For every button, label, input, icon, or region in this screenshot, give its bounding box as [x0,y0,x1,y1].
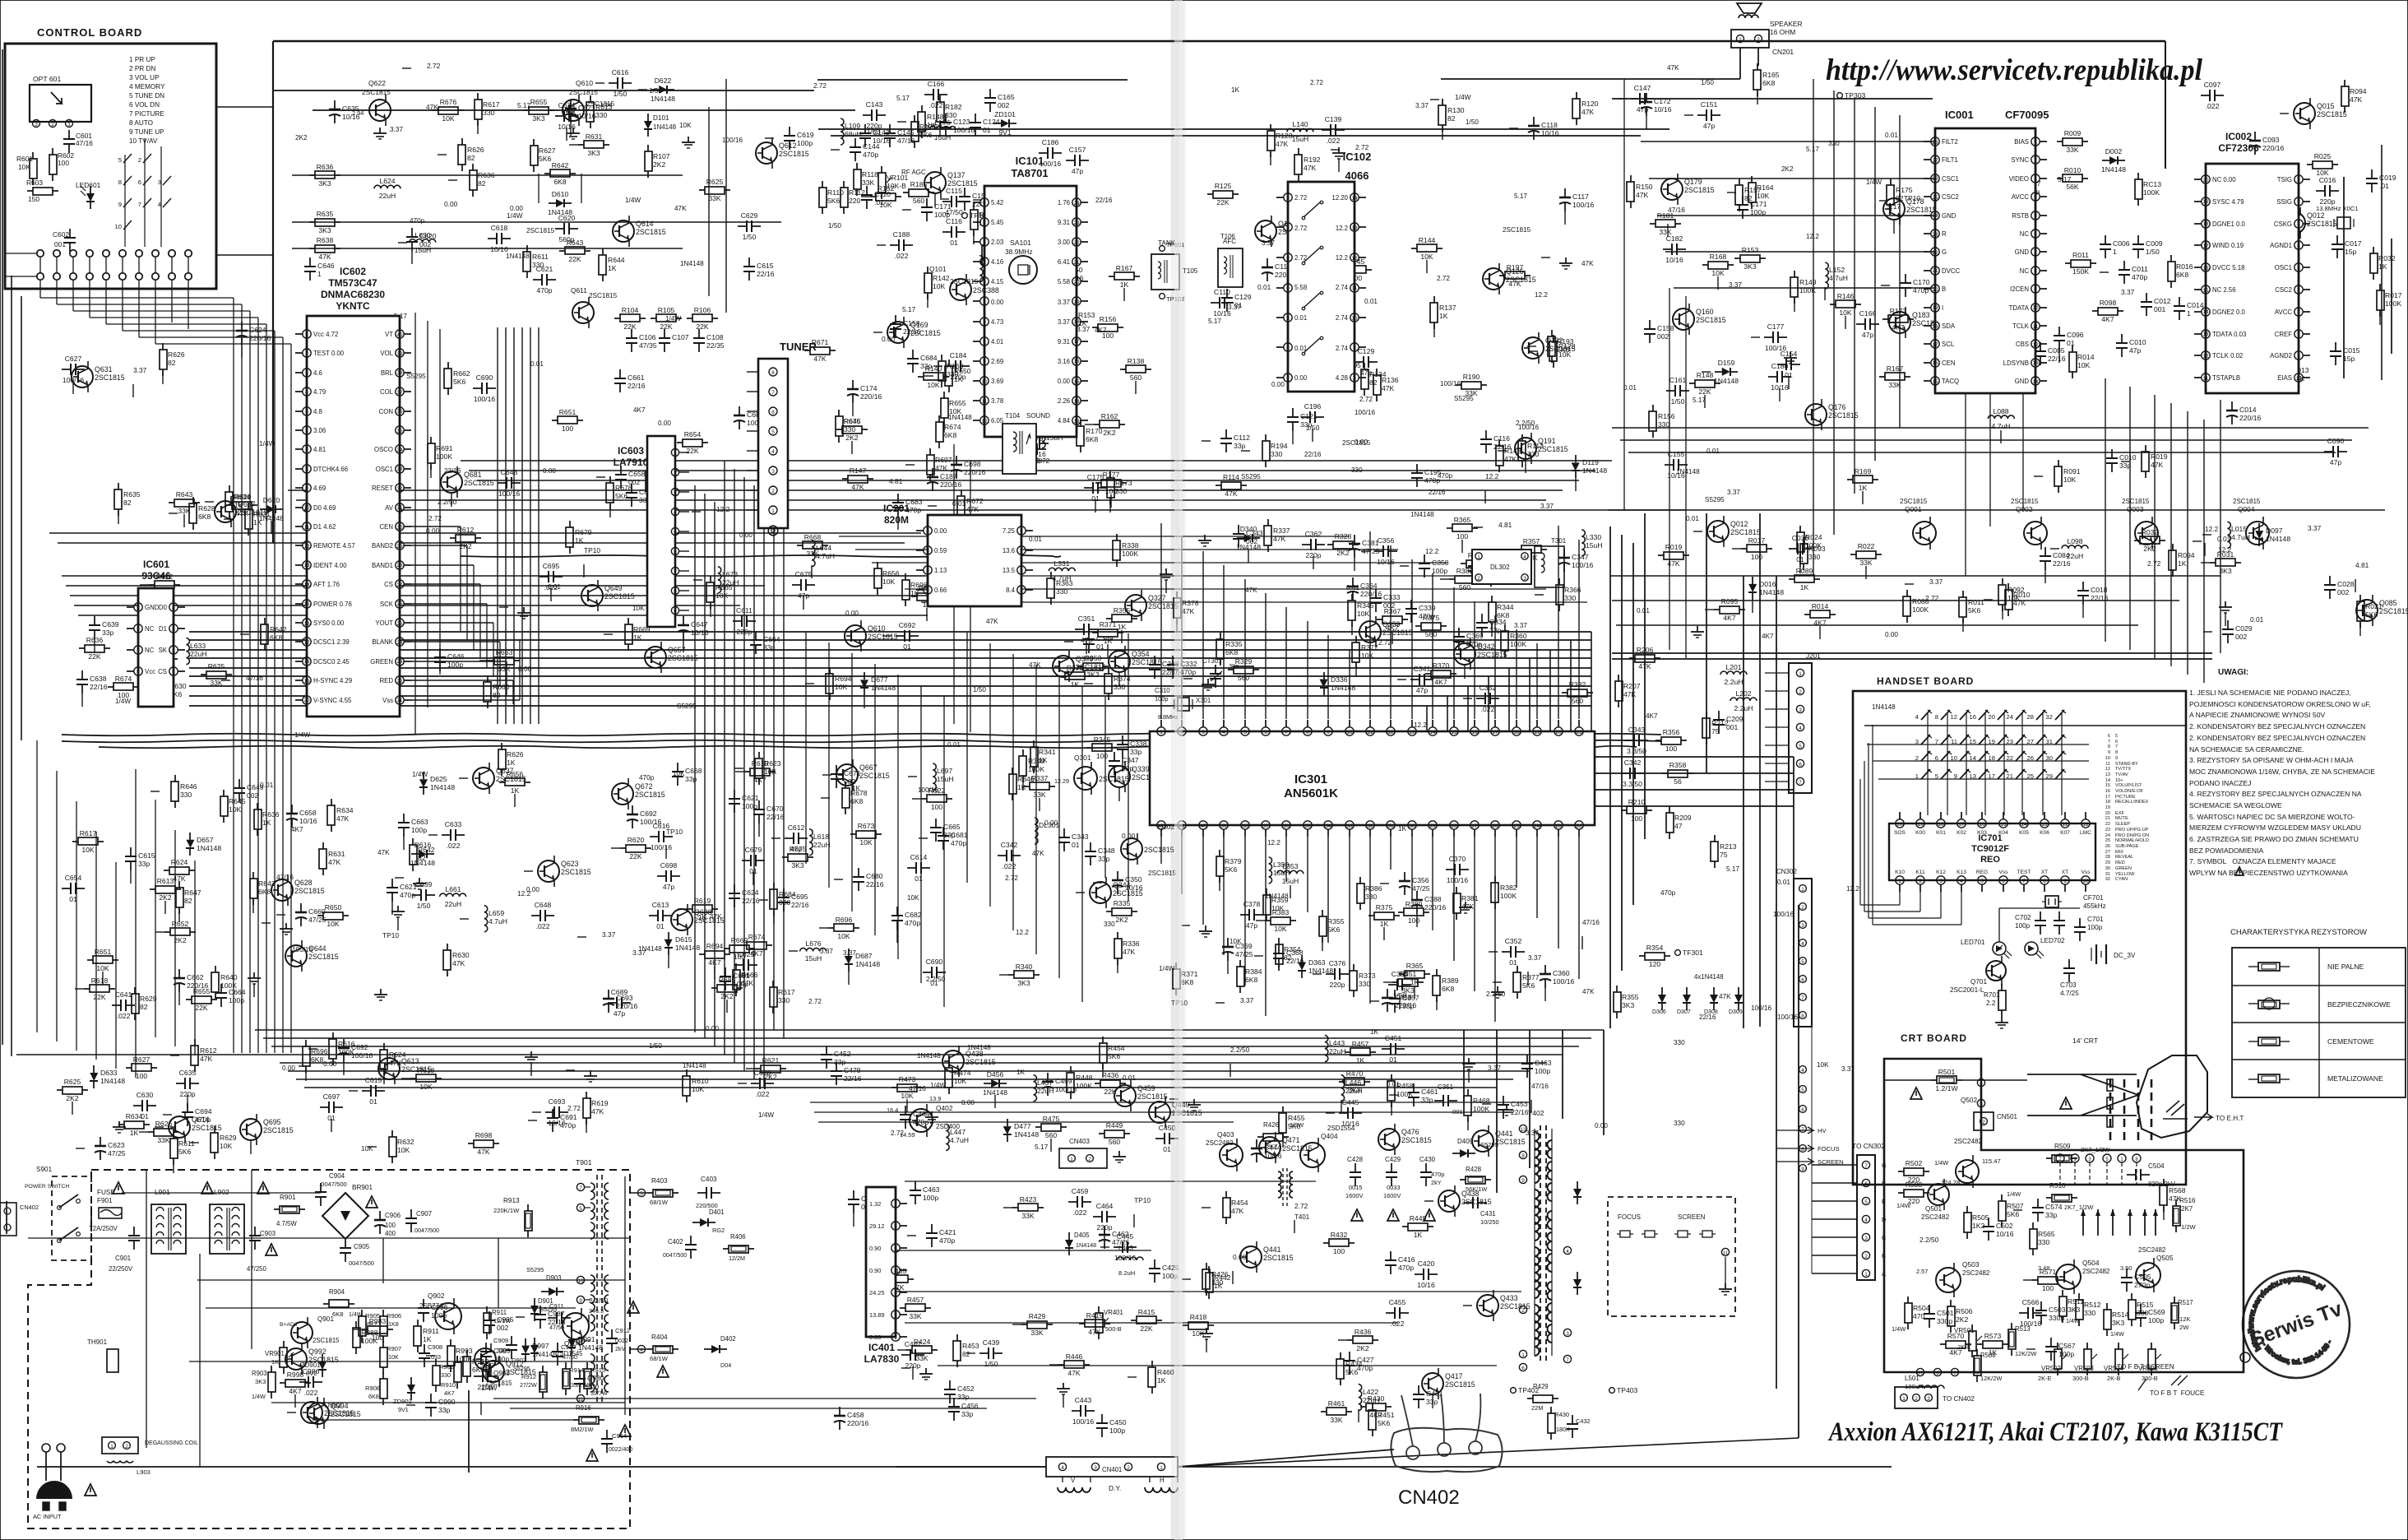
legend resistor symbol [2248,966,2258,967]
svg-text:330: 330 [1351,466,1363,474]
resistor R642 [412,838,414,845]
svg-text:C339: C339 [1419,604,1436,612]
potentiometer VR503 [2086,1343,2088,1349]
svg-text:10K: 10K [2063,475,2077,484]
capacitor C681 [942,827,944,836]
wire [304,1087,1497,1088]
svg-text:1K: 1K [633,633,642,642]
svg-text:22/16: 22/16 [791,901,809,909]
svg-text:R328: R328 [1335,532,1352,540]
resistor R110 [822,181,823,188]
wire [1620,439,2352,441]
wire [1012,654,1014,930]
svg-text:10K: 10K [1274,925,1287,933]
capacitor C463 [915,1181,916,1190]
svg-text:4: 4 [158,201,161,208]
resistor R386 [1359,877,1361,884]
svg-text:47p: 47p [1072,167,1084,175]
resistor R428 [1460,1179,1466,1181]
svg-text:12.2: 12.2 [517,889,531,898]
transistor Q441 [1472,1130,1493,1152]
resistor R137 [1433,296,1435,303]
capacitor C450 [1155,1138,1165,1139]
resistor R906 [382,1310,384,1316]
svg-text:22uH: 22uH [190,650,207,658]
resistor R515 [2131,1293,2132,1300]
svg-text:BAND1: BAND1 [372,562,393,569]
svg-text:C641: C641 [115,990,132,999]
svg-text:R634: R634 [126,1112,143,1120]
svg-text:6K8: 6K8 [2176,271,2189,279]
capacitor C131 [1315,290,1324,291]
capacitor C619 [789,127,790,136]
transistor Q001 [1913,522,1936,545]
wire [1595,756,1794,758]
resistor R366 [1558,578,1560,585]
ground [1165,568,1167,574]
diode D159 [1715,371,1722,373]
wire [189,1361,609,1362]
svg-text:R389: R389 [1442,976,1459,985]
resistor R651 [87,959,93,961]
resistor R354 [1278,938,1280,944]
svg-text:100K: 100K [361,1337,377,1345]
svg-text:C420: C420 [1418,1259,1435,1268]
svg-text:10K: 10K [1420,253,1433,261]
svg-text:82: 82 [467,154,475,162]
resistor R371 [1092,632,1098,633]
svg-text:2.26: 2.26 [1058,397,1070,405]
diode D991 [571,1332,572,1339]
capacitor C171 [1742,196,1743,205]
svg-text:R434: R434 [1345,1360,1363,1368]
svg-text:R373: R373 [1359,972,1376,980]
svg-text:5.17: 5.17 [1035,1143,1049,1151]
svg-text:47K: 47K [1276,140,1289,148]
svg-text:100p: 100p [1750,208,1766,216]
svg-text:3.78: 3.78 [991,397,1003,405]
resistor R128 [1553,335,1554,341]
wire [6,1201,7,1234]
IC IC602 [307,316,400,717]
capacitor C085 [2040,342,2041,351]
svg-text:3.37: 3.37 [1262,239,1275,247]
wire [1793,757,1794,879]
svg-text:22/16: 22/16 [1304,451,1322,458]
svg-text:3.37: 3.37 [1540,503,1554,510]
svg-text:R635: R635 [317,210,334,218]
svg-text:Q433: Q433 [1500,1294,1518,1302]
svg-text:10K: 10K [419,1083,433,1091]
resistor R622 [921,798,927,800]
wire [896,1466,1046,1468]
capacitor C620 [411,228,413,237]
wire [1223,837,1225,955]
wire [1984,712,1986,815]
svg-text:R374: R374 [1114,675,1131,683]
svg-text:R355: R355 [1114,606,1131,615]
capacitor C195 [1416,464,1418,473]
svg-text:9.31: 9.31 [1058,338,1070,346]
capacitor C613 [649,915,658,916]
svg-text:100p: 100p [1109,1426,1125,1435]
wire [288,489,1563,491]
svg-text:01: 01 [1389,1055,1397,1064]
svg-text:1K: 1K [1231,86,1240,94]
svg-text:4066: 4066 [1345,169,1369,182]
svg-text:C009: C009 [2146,239,2163,248]
svg-text:01: 01 [656,922,665,930]
svg-text:NC: NC [145,647,155,654]
warning triangle [113,1182,124,1194]
wire [58,542,905,544]
svg-text:5K6: 5K6 [1968,606,1981,615]
svg-text:R623: R623 [764,759,781,768]
svg-text:1/4W: 1/4W [1866,179,1882,186]
capacitor C352 [1476,698,1485,699]
transistor Q176 [1805,404,1827,425]
resistor R650 [948,359,950,366]
capacitor C448 [853,1190,854,1199]
resistor R014 [2072,346,2073,352]
svg-text:1N4148: 1N4148 [2101,165,2126,174]
svg-text:3: 3 [983,240,986,246]
svg-text:40: 40 [396,332,403,338]
svg-text:002: 002 [2235,633,2248,641]
svg-text:C368: C368 [1286,949,1304,957]
svg-text:33: 33 [396,466,403,472]
svg-text:11: 11 [304,525,310,531]
svg-text:2.72: 2.72 [808,998,822,1005]
transistor Q623 [538,860,559,882]
svg-text:L659: L659 [489,909,504,917]
transistor Q637 [215,501,236,522]
svg-text:.022: .022 [1327,137,1341,145]
svg-text:8: 8 [305,466,308,472]
svg-text:100K: 100K [1076,1082,1092,1090]
resistor R454 [1102,1037,1104,1043]
svg-text:0.01: 0.01 [530,360,544,368]
svg-text:R696: R696 [910,581,928,589]
svg-text:R696: R696 [836,916,853,924]
wire [1665,251,1935,253]
capacitor C006 [2105,235,2106,244]
resistor R189 [1311,366,1317,368]
inductor L447 [946,1125,949,1151]
capacitor C662 [178,969,180,978]
capacitor C703 [2068,959,2070,968]
resistor R170 [1080,420,1081,426]
svg-text:R381: R381 [1461,894,1479,902]
transistor Q004 [2246,522,2269,545]
svg-text:2SC1815: 2SC1815 [1545,345,1576,353]
wire [1765,690,1789,692]
svg-text:1N4148: 1N4148 [1759,588,1784,596]
svg-text:R138: R138 [1128,357,1145,365]
svg-text:3.37: 3.37 [1729,281,1742,289]
wire [497,327,498,724]
wire [530,327,531,724]
svg-text:47K: 47K [2151,461,2164,469]
capacitor C116 [942,231,952,233]
resistor R356 [1655,740,1661,741]
wire [1494,837,1496,1022]
LED LED702 [2025,942,2038,955]
svg-text:0.01: 0.01 [1885,132,1898,139]
capacitor C616 [609,82,618,84]
svg-text:6 VOL DN: 6 VOL DN [129,101,160,109]
svg-text:100/16: 100/16 [1072,1417,1095,1426]
resistor R696 [828,927,834,929]
svg-text:Q137: Q137 [947,171,966,179]
svg-text:D101: D101 [653,114,669,122]
wire [1947,712,1948,815]
svg-text:C110: C110 [874,190,891,198]
resistor R371 [1175,962,1177,969]
resistor R143 [1498,439,1500,446]
wire [1447,696,1448,731]
svg-text:R694: R694 [835,675,852,683]
resistor R635 [118,483,119,489]
warning triangle [201,1182,213,1194]
svg-text:1/50: 1/50 [1466,118,1479,126]
svg-text:C123: C123 [953,118,970,126]
capacitor C030 [1789,548,1798,550]
resistor R162 [1094,424,1100,425]
svg-text:R340: R340 [1016,962,1033,971]
svg-text:C690: C690 [476,373,493,382]
wire [1867,744,2089,745]
svg-text:R162: R162 [1101,412,1118,420]
svg-text:0.00: 0.00 [543,467,556,475]
svg-text:R619: R619 [591,1099,609,1107]
svg-text:100K: 100K [1028,765,1044,773]
svg-text:47p: 47p [1703,122,1716,130]
capacitor C639 [94,616,95,625]
inductor L098 [2062,545,2088,549]
svg-text:33K: 33K [1030,1329,1044,1337]
svg-text:R631: R631 [586,132,603,141]
svg-text:D0: D0 [159,604,168,611]
CRT funnel bell [2137,1055,2207,1138]
svg-text:330: 330 [1828,140,1840,147]
wire [2105,378,2106,642]
svg-text:47/25: 47/25 [308,916,326,924]
svg-text:3.00: 3.00 [1058,239,1071,246]
svg-text:R650: R650 [954,367,971,375]
svg-text:.022: .022 [1003,862,1016,870]
resistor R612 [194,1039,196,1046]
svg-text:33K: 33K [1330,1416,1343,1424]
svg-text:1K: 1K [2178,559,2187,568]
inductor L168 [998,187,1001,213]
svg-text:330: 330 [1271,450,1283,458]
svg-text:BLANK: BLANK [372,638,393,646]
svg-text:2: 2 [51,122,54,128]
wire [1854,99,1855,494]
svg-text:5K6: 5K6 [453,378,466,386]
svg-text:0.01: 0.01 [1623,384,1637,392]
wire [943,696,945,1007]
resistor R908 [382,1372,384,1379]
wire [1612,427,2369,429]
svg-text:20: 20 [303,698,310,703]
svg-text:R375: R375 [1376,903,1393,911]
svg-text:220/16: 220/16 [249,334,271,342]
resistor R113 [1521,434,1523,441]
svg-text:6: 6 [983,299,986,305]
svg-text:R694: R694 [706,942,724,950]
connector CN402 sketch [1391,1428,1502,1472]
capacitor C014 [2179,297,2180,306]
svg-text:C172: C172 [1654,97,1671,105]
resistor R370 [1425,673,1431,675]
svg-text:C115: C115 [946,187,962,195]
capacitor C698 [657,875,666,877]
svg-text:4.7uH: 4.7uH [950,1136,969,1144]
capacitor C443 [1072,1410,1081,1412]
svg-text:R573: R573 [1984,1332,2002,1340]
capacitor C358 [1387,989,1388,998]
resistor R626 [162,343,164,350]
svg-text:R660: R660 [493,683,510,691]
svg-text:23: 23 [396,659,403,665]
svg-text:82: 82 [168,359,176,367]
svg-text:C664: C664 [763,635,780,643]
capacitor C157 [1066,160,1075,161]
svg-text:3.37: 3.37 [1528,953,1542,962]
capacitor C416 [1390,1251,1392,1260]
svg-text:10K: 10K [882,577,896,586]
svg-text:37: 37 [396,390,403,396]
svg-text:R382: R382 [1569,680,1586,689]
resistor R672 [961,489,962,496]
svg-text:C630: C630 [137,1091,154,1099]
resistor R697 [929,448,931,455]
capacitor C343 [1063,828,1065,837]
svg-text:R656: R656 [882,569,900,577]
svg-text:2SC1815: 2SC1815 [1137,1092,1168,1101]
svg-text:R164: R164 [1757,183,1774,192]
transistor Q505 [2136,1263,2160,1287]
svg-text:Q992: Q992 [308,1347,326,1356]
svg-text:2.72: 2.72 [567,1105,581,1112]
svg-text:13: 13 [1073,419,1080,424]
wire [1285,837,1287,882]
resistor R666 [735,963,737,970]
svg-text:R674: R674 [748,933,766,941]
resistor R679 [569,521,571,527]
capacitor C110 [1211,302,1220,304]
svg-text:15uH: 15uH [934,133,952,141]
svg-text:4K7: 4K7 [291,826,303,833]
resistor R510 [2046,1197,2052,1199]
svg-text:Q628: Q628 [294,879,313,887]
svg-text:R618: R618 [91,976,109,985]
svg-text:16: 16 [303,621,310,627]
svg-text:VT: VT [385,331,393,338]
wire [1621,535,1623,971]
svg-text:1K: 1K [575,536,584,545]
svg-text:100/16: 100/16 [474,395,496,403]
svg-text:28: 28 [396,563,403,568]
capacitor C663 [403,814,405,823]
inductor L088 [1988,415,2014,419]
capacitor C108 [698,329,700,338]
svg-text:C129: C129 [1358,347,1375,355]
resistor R676 [433,109,438,111]
wire [1349,837,1350,973]
connector CN501 [1974,1112,1994,1130]
capacitor C364 [1352,577,1354,587]
inductor L176 [929,127,956,130]
wire [521,327,523,724]
svg-text:560: 560 [1459,583,1471,591]
warning triangle [627,1301,639,1313]
resistor R663 [489,660,494,661]
capacitor C420 [1415,1273,1424,1275]
capacitor C569 [2140,1304,2142,1313]
capacitor C649 [238,779,240,788]
wire [1649,178,1935,179]
svg-text:R011: R011 [1968,598,1984,606]
capacitor C602 [69,229,71,238]
resistor R910 [466,1350,468,1357]
wire [1812,1255,1857,1256]
svg-text:10: 10 [115,223,122,230]
resistor R655 [186,999,192,1000]
transistor Q637 [473,768,494,789]
svg-text:3K3: 3K3 [587,149,600,157]
resistor R148 [1689,383,1695,384]
capacitor C912 [611,1329,613,1338]
transistor Q610 [563,100,584,121]
svg-text:C639: C639 [102,620,119,629]
svg-text:C627: C627 [65,355,82,363]
wire [122,296,123,331]
svg-text:C624: C624 [742,888,759,897]
resistor R474 [948,1061,950,1068]
svg-text:D456: D456 [987,1070,1004,1078]
svg-text:2.72: 2.72 [1294,1202,1308,1210]
wire [1411,837,1413,900]
potentiometer VR502 [2057,1343,2058,1349]
capacitor C151 [1697,114,1706,116]
svg-text:R181: R181 [1657,211,1674,220]
svg-text:10K: 10K [692,1085,705,1093]
wire [1160,523,1162,719]
svg-text:R617: R617 [778,988,795,996]
resistor R418 [1183,1324,1188,1326]
svg-text:3.37: 3.37 [1488,1065,1501,1072]
svg-text:4.16: 4.16 [991,258,1003,266]
svg-text:R017: R017 [1748,536,1766,545]
svg-text:R470: R470 [1346,1069,1364,1078]
resistor R156 [1092,327,1098,328]
capacitor C452 [826,1046,827,1055]
wire [1181,537,1183,719]
wire [905,1322,1398,1324]
wire [1411,559,1413,719]
wire [1591,632,1592,731]
svg-text:10K: 10K [1839,308,1852,317]
resistor R660 [487,675,489,682]
wire [263,1037,1591,1039]
resistor R106 [687,318,692,319]
capacitor C364 [1388,984,1397,986]
resistor R631 [322,842,324,849]
capacitor C624 [734,884,735,893]
